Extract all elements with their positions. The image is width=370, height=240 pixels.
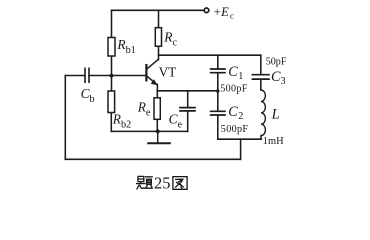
- wire Rc bottom lead to collector: [158, 46, 160, 59]
- wire C1 to C2 link: [217, 73, 219, 110]
- wire Ce top lead: [187, 91, 189, 107]
- caption 题25图: [137, 176, 188, 189]
- capacitor Ce: [179, 108, 196, 111]
- svg-text:Re: Re: [137, 99, 151, 118]
- resistor Re: [154, 98, 160, 120]
- svg-text:C3: C3: [271, 69, 286, 87]
- svg-text:Ce: Ce: [169, 112, 183, 131]
- wire Ce bottom lead: [187, 112, 189, 132]
- svg-text:VT: VT: [159, 64, 177, 79]
- glyph ti (topic): [138, 176, 144, 181]
- wire Rc top lead: [158, 10, 160, 27]
- wire Rb1 bottom lead: [111, 56, 113, 76]
- wire C2 bottom lead: [217, 116, 219, 140]
- capacitor Cb: [85, 68, 89, 84]
- svg-text:C2: C2: [228, 104, 243, 122]
- svg-text:500pF: 500pF: [221, 124, 249, 135]
- wire L bottom lead: [260, 136, 262, 140]
- capacitor C1: [210, 69, 226, 73]
- resistor Rb1: [108, 38, 115, 57]
- wire top supply rail: [112, 9, 204, 11]
- resistor Rb2: [108, 91, 115, 113]
- node dot base junction: [109, 73, 115, 79]
- capacitor C2: [210, 111, 226, 115]
- glyph tu (figure): [173, 177, 187, 190]
- wire base wire: [89, 75, 146, 77]
- wire Rb1 top lead: [111, 10, 113, 37]
- wire tank bottom rail: [218, 138, 261, 140]
- svg-text:L: L: [271, 106, 280, 122]
- svg-text:Rb1: Rb1: [116, 37, 135, 56]
- svg-text:Rb2: Rb2: [112, 111, 131, 130]
- wire C3 to L link: [260, 80, 262, 90]
- svg-text:C1: C1: [228, 64, 243, 82]
- terminal +Ec: [204, 8, 209, 13]
- wire Rb2 bottom lead: [110, 113, 112, 132]
- svg-text:+Ec: +Ec: [214, 5, 234, 21]
- wire Re bottom lead: [156, 119, 158, 131]
- wire Re top lead: [156, 91, 158, 98]
- svg-text:Rc: Rc: [163, 29, 177, 48]
- resistor Rc: [155, 28, 161, 47]
- ground: [157, 131, 159, 142]
- capacitor C3: [252, 75, 270, 79]
- wire left feedback wire: [64, 76, 66, 160]
- transistor VT: [146, 59, 158, 84]
- node dot divider junction: [216, 89, 219, 92]
- inductor L: [261, 90, 265, 136]
- wire Cb left lead: [65, 75, 85, 77]
- svg-text:Cb: Cb: [81, 86, 95, 105]
- svg-text:50pF: 50pF: [266, 56, 287, 67]
- svg-text:25: 25: [154, 174, 170, 193]
- wire C1 top lead: [217, 55, 219, 68]
- wire Rb2 top lead: [111, 76, 113, 92]
- wire ground rail: [111, 130, 187, 132]
- wire emitter rail: [157, 90, 217, 92]
- svg-text:1mH: 1mH: [263, 136, 284, 147]
- wire bottom feedback wire: [65, 158, 240, 160]
- node dot ground junction: [155, 129, 161, 135]
- wire collector rail: [159, 54, 261, 56]
- wire tank bottom drop: [240, 139, 242, 159]
- svg-text:500pF: 500pF: [220, 84, 248, 95]
- wire C3 top lead: [260, 55, 262, 74]
- wire emitter vertical: [156, 85, 158, 91]
